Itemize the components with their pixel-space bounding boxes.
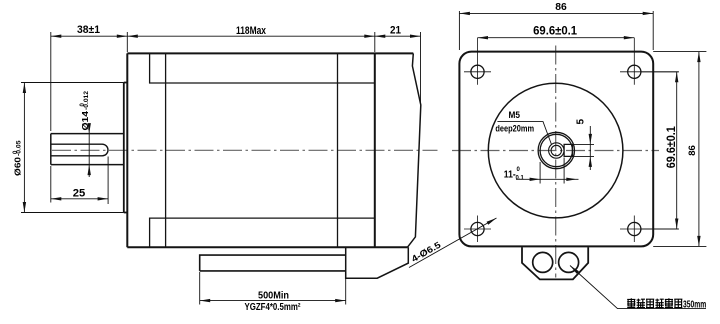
dimension 38±1 — [51, 32, 128, 131]
encoder bottom block — [346, 247, 409, 278]
svg-text:118Max: 118Max — [236, 25, 267, 37]
M5 tapped hole circles — [549, 143, 564, 158]
body front end-cap joint line — [165, 53, 167, 247]
label encoder lead wire 350mm — [627, 298, 706, 310]
leader 4-Ø6.5 — [409, 218, 497, 268]
dimension 25 keyway length — [51, 157, 108, 205]
svg-text:25: 25 — [73, 187, 86, 199]
front view centerline vertical — [555, 46, 557, 278]
svg-text:38±1: 38±1 — [77, 24, 100, 36]
mounting hole bottom-left — [471, 222, 484, 235]
keyway slot side view — [51, 144, 108, 156]
wire centerline side view — [52, 149, 438, 151]
svg-text:11-: 11- — [504, 168, 516, 180]
front view centerline horizontal — [452, 150, 659, 152]
cable exit housing — [200, 255, 346, 271]
cable gland circle right — [559, 252, 579, 272]
dimension 5 keyway — [573, 126, 595, 170]
keyway front view — [564, 144, 572, 156]
rear housing cover — [408, 53, 421, 247]
svg-text:YGZF4*0.5mm²: YGZF4*0.5mm² — [245, 301, 301, 313]
dimension 86 top — [459, 11, 653, 50]
dimension 118Max — [127, 32, 374, 52]
svg-text:5: 5 — [575, 118, 586, 124]
svg-text:86: 86 — [687, 145, 697, 156]
dimension 86 right — [653, 52, 706, 247]
mounting hole bottom-right — [628, 222, 641, 235]
dimension 11-0.1 — [516, 158, 579, 184]
pilot circle Ø60 — [488, 83, 623, 218]
connector housing front view — [522, 247, 588, 279]
dimension 500Min cable — [200, 272, 346, 305]
dimension 21 — [375, 32, 421, 104]
cable gland circle left — [533, 252, 553, 272]
dimension 69.6±0.1 top — [478, 37, 635, 39]
dimension 69.6±0.1 right — [641, 72, 679, 229]
svg-text:69.6±0.1: 69.6±0.1 — [533, 24, 577, 38]
mounting hole top-left — [471, 65, 484, 78]
svg-text:0.1: 0.1 — [516, 176, 525, 182]
motor body outline — [127, 53, 413, 247]
svg-text:Ø60: Ø60 — [13, 157, 23, 176]
svg-text:86: 86 — [555, 1, 567, 13]
body rear end-cap joint line — [337, 53, 339, 247]
dimension Ø60 boss — [21, 83, 124, 213]
pilot boss front face — [124, 83, 128, 213]
shaft circles front view — [538, 132, 574, 168]
svg-text:Ø14: Ø14 — [80, 111, 90, 131]
svg-text:69.6±0.1: 69.6±0.1 — [664, 126, 678, 168]
leader encoder cable — [570, 266, 706, 309]
svg-text:350mm: 350mm — [683, 299, 706, 311]
mounting hole top-right — [628, 65, 641, 78]
svg-text:deep20mm: deep20mm — [495, 123, 534, 133]
svg-text:21: 21 — [390, 25, 401, 37]
shaft side view — [51, 134, 124, 165]
front flange square — [459, 52, 653, 247]
body corner silhouette bottom line — [150, 218, 375, 247]
body corner silhouette top line — [150, 53, 375, 83]
svg-text:M5: M5 — [509, 110, 521, 121]
svg-text:500Min: 500Min — [258, 290, 289, 302]
dimension Ø14 shaft — [88, 128, 90, 177]
